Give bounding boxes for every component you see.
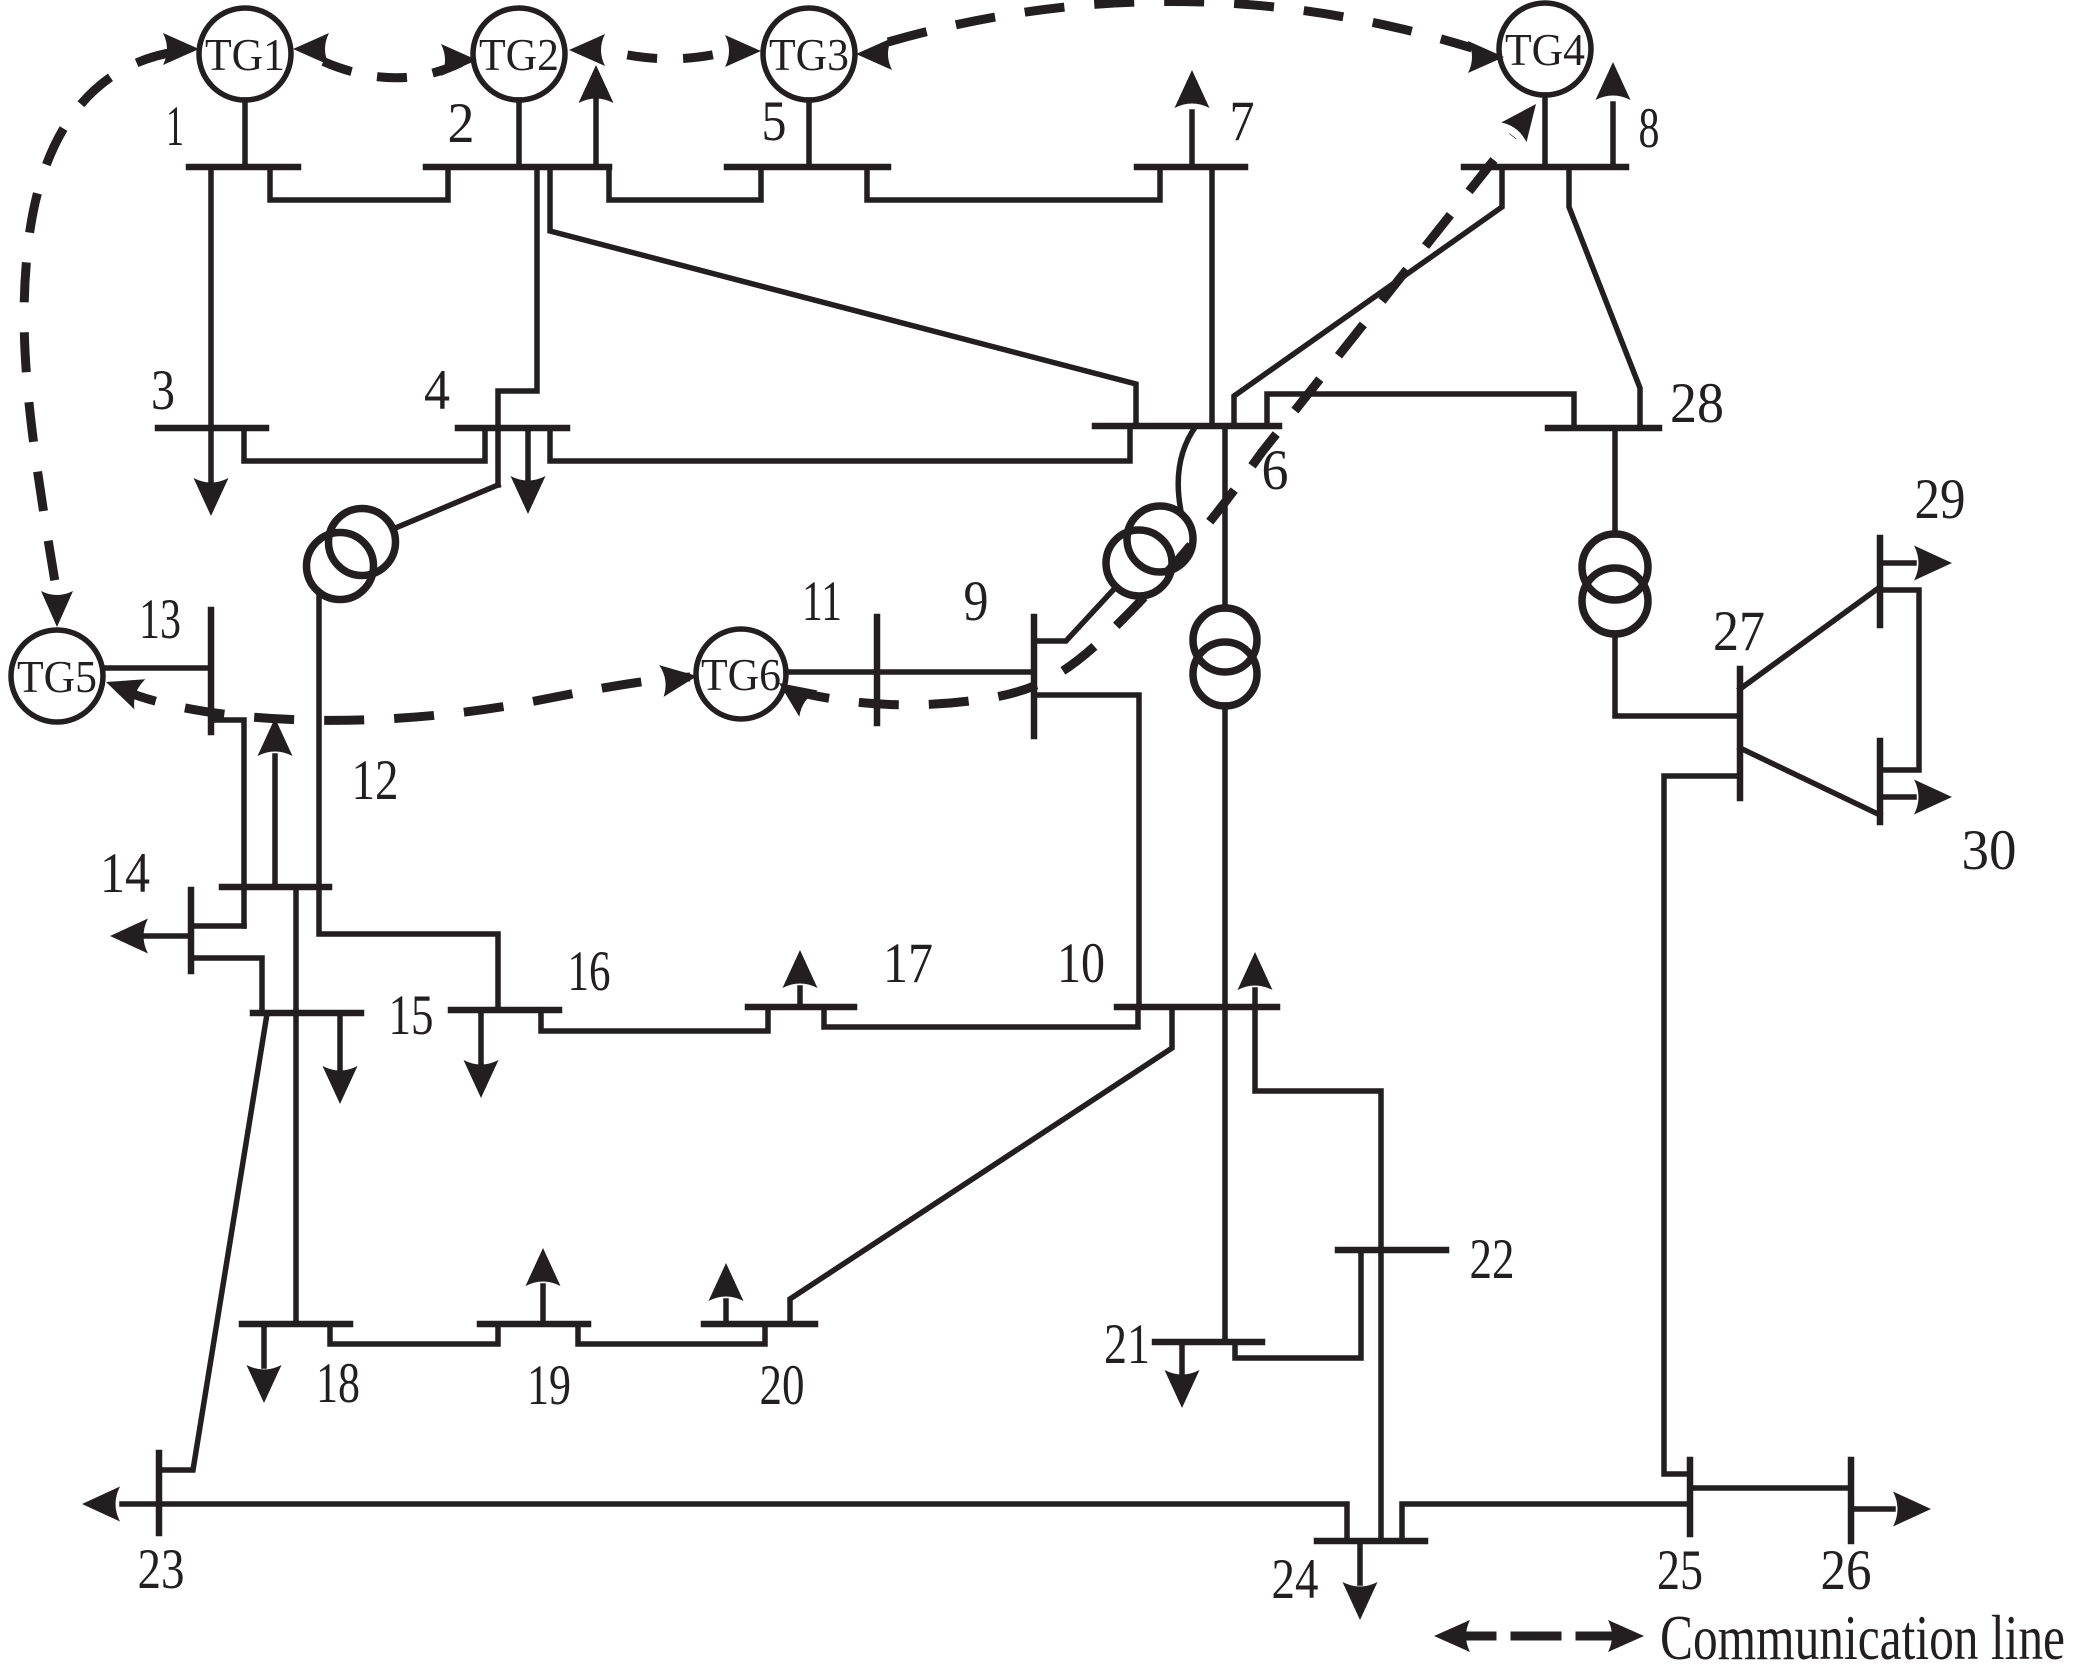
line 5-7	[867, 167, 1160, 200]
bus 12	[222, 884, 329, 891]
wire bus4 to transformer 4-12	[393, 485, 498, 529]
comm line TG5-TG6	[118, 677, 690, 720]
load arrow bus 8	[1610, 104, 1616, 167]
bus 18	[242, 1321, 350, 1328]
load arrow bus 20	[723, 1301, 729, 1324]
transformer 28-27	[1582, 534, 1648, 600]
generator TG2	[473, 8, 565, 100]
bus 3	[158, 425, 266, 432]
svg-text:17: 17	[883, 932, 933, 995]
svg-text:7: 7	[1230, 90, 1255, 153]
line 1-2	[270, 167, 448, 200]
line 18-19	[330, 1324, 498, 1344]
line 10-22	[1255, 1007, 1381, 1250]
line 6-8	[1234, 167, 1502, 426]
comm line TG3-TG4	[888, 1, 1472, 48]
bus 27	[1737, 669, 1744, 798]
wire transformer 28-27 to bus 27	[1615, 633, 1740, 716]
bus 25	[1687, 1460, 1694, 1534]
svg-text:8: 8	[1639, 97, 1660, 160]
line 15-18	[293, 1013, 299, 1324]
bus 28	[1548, 425, 1659, 432]
svg-text:22: 22	[1470, 1228, 1515, 1291]
load arrow bus 3	[208, 428, 214, 480]
svg-text:14: 14	[100, 842, 150, 905]
svg-text:TG4: TG4	[1505, 24, 1585, 75]
load arrow bus 14	[145, 933, 191, 939]
line 12-16	[319, 887, 498, 1010]
generator TG3	[763, 8, 855, 100]
line 2-4	[498, 167, 537, 485]
bus 7	[1137, 164, 1245, 171]
wire TG5 to bus 13	[103, 665, 211, 671]
bus 9	[1031, 617, 1038, 736]
generator TG5	[11, 630, 103, 722]
load arrow bus 19	[540, 1286, 546, 1324]
line 27-25	[1664, 776, 1740, 1474]
generator TG6	[696, 629, 786, 719]
line 3-4	[244, 428, 485, 461]
transformer 6-9	[1127, 506, 1193, 572]
bus 11	[874, 617, 881, 723]
svg-text:9: 9	[964, 570, 989, 633]
line 12-13	[211, 720, 244, 926]
bus 17	[748, 1004, 854, 1011]
comm line TG6-TG4	[790, 136, 1513, 705]
bus 15	[253, 1010, 361, 1017]
bus 14	[188, 890, 195, 971]
bus 1	[189, 164, 298, 171]
svg-text:24: 24	[1272, 1548, 1319, 1611]
bus 4	[458, 425, 567, 432]
wire transformer 6-10 to bus 21	[1222, 705, 1228, 1342]
line 2-5	[609, 167, 761, 200]
transformer 6-10	[1193, 608, 1257, 672]
wire TG4 to bus 8	[1542, 95, 1548, 164]
legend comm arrow	[1468, 1632, 1492, 1641]
bus 29	[1877, 538, 1884, 625]
wire TG1 to bus 1	[242, 100, 248, 164]
line 22-24	[1378, 1250, 1384, 1541]
bus 13	[208, 610, 215, 732]
load arrow bus 7	[1189, 112, 1195, 167]
load arrow bus 30	[1880, 794, 1914, 800]
bus 20	[704, 1321, 815, 1328]
load arrow bus 29	[1880, 560, 1914, 566]
bus 19	[480, 1321, 588, 1328]
generator TG1	[199, 8, 291, 100]
svg-text:TG2: TG2	[479, 29, 559, 80]
line 27-30	[1740, 748, 1880, 815]
bus 21	[1155, 1339, 1262, 1346]
svg-text:4: 4	[424, 359, 450, 422]
load arrow bus 24	[1357, 1541, 1363, 1583]
bus 8	[1464, 164, 1626, 171]
line 25-26	[1690, 1485, 1851, 1491]
line 6-28	[1267, 394, 1574, 428]
wire transformer 6-9 to bus 9	[1034, 588, 1115, 641]
svg-text:12: 12	[352, 749, 399, 812]
wire TG3 to bus 5	[806, 100, 812, 164]
svg-text:26: 26	[1821, 1539, 1872, 1602]
line 9-10	[1034, 695, 1139, 1007]
svg-text:13: 13	[139, 588, 181, 651]
comm line TG2-TG3	[602, 49, 726, 59]
load arrow bus 12	[272, 756, 278, 887]
load arrow bus 17	[797, 988, 803, 1007]
wire TG6 to bus 9	[786, 669, 1034, 675]
load arrow bus 16	[478, 1010, 484, 1062]
wire bus6 to transformer 6-10	[1222, 426, 1228, 609]
line 24-25	[1402, 1504, 1690, 1541]
svg-text:28: 28	[1670, 372, 1724, 435]
svg-text:1: 1	[166, 95, 184, 158]
line 10-20	[790, 1007, 1172, 1324]
comm line TG1-TG2	[300, 50, 466, 78]
transformer 4-12	[329, 509, 396, 576]
line 14-15	[191, 958, 262, 1013]
svg-text:3: 3	[151, 359, 175, 422]
svg-text:10: 10	[1057, 932, 1105, 995]
svg-text:TG1: TG1	[205, 29, 285, 80]
line 17-10	[824, 1007, 1138, 1027]
svg-text:TG5: TG5	[17, 651, 97, 702]
svg-text:25: 25	[1657, 1539, 1703, 1602]
svg-text:TG3: TG3	[769, 29, 849, 80]
wire TG2 to bus 2	[516, 100, 522, 164]
svg-text:29: 29	[1915, 468, 1966, 531]
wire bus28 to transformer 28-27	[1612, 428, 1618, 535]
bus 2	[426, 164, 609, 171]
line 16-17	[541, 1007, 768, 1031]
bus 24	[1317, 1538, 1425, 1545]
line 19-20	[578, 1324, 765, 1344]
bus 6	[1095, 423, 1279, 430]
svg-text:2: 2	[448, 92, 475, 155]
line 8-28	[1569, 167, 1640, 428]
load arrow bus 10	[1252, 990, 1258, 1007]
svg-text:TG6: TG6	[701, 649, 781, 700]
bus 22	[1338, 1247, 1446, 1254]
bus 16	[451, 1007, 559, 1014]
bus 5	[727, 164, 888, 171]
svg-text:20: 20	[760, 1354, 805, 1417]
load arrow bus 4	[525, 428, 531, 478]
svg-text:27: 27	[1713, 600, 1765, 663]
line 27-29	[1740, 587, 1880, 689]
bus 10	[1117, 1004, 1277, 1011]
line 7-6	[1209, 167, 1215, 426]
line 21-22	[1235, 1250, 1361, 1358]
load arrow bus 23	[122, 1501, 159, 1507]
line 23-24	[159, 1504, 1347, 1541]
svg-text:23: 23	[138, 1538, 185, 1601]
svg-text:16: 16	[568, 940, 611, 1003]
bus 23	[156, 1453, 163, 1533]
load arrow bus 18	[261, 1324, 267, 1366]
wire transformer 4-12 to bus 12	[316, 592, 322, 887]
line 15-23	[160, 1014, 267, 1470]
svg-text:18: 18	[316, 1352, 360, 1415]
load arrow bus 2	[593, 101, 599, 167]
svg-text:15: 15	[389, 984, 434, 1047]
load arrow bus 26	[1851, 1506, 1893, 1512]
wire bus6 to transformer 6-9	[1178, 426, 1196, 516]
comm line TG1-TG5	[24, 52, 175, 582]
svg-text:5: 5	[762, 90, 787, 153]
load arrow bus 15	[337, 1013, 343, 1068]
svg-text:19: 19	[527, 1354, 571, 1417]
line 29-30	[1880, 590, 1919, 770]
bus 30	[1877, 741, 1884, 822]
line 1-3	[208, 167, 214, 428]
line 2-6	[550, 167, 1136, 426]
line 4-6	[550, 426, 1130, 461]
svg-text:21: 21	[1104, 1313, 1150, 1376]
line 12-14	[191, 923, 244, 929]
bus 26	[1848, 1460, 1855, 1541]
generator TG4	[1499, 3, 1591, 95]
svg-text:11: 11	[802, 570, 842, 633]
svg-text:Communication line: Communication line	[1660, 1602, 2065, 1667]
svg-text:30: 30	[1962, 819, 2017, 882]
line 12-15	[293, 887, 299, 1013]
load arrow bus 21	[1179, 1342, 1185, 1372]
